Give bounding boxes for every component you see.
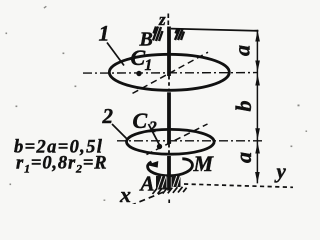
- shaft middle solid segment: [167, 92, 171, 144]
- shaft upper solid segment: [167, 27, 171, 77]
- bearing A left hatch block: [156, 176, 167, 190]
- shaft hidden dashed segment in disk 1: [168, 76, 170, 89]
- svg-text:z: z: [158, 10, 166, 29]
- svg-text:a: a: [230, 45, 255, 56]
- z-axis dashed line: [167, 14, 169, 28]
- scan specks: [6, 6, 308, 201]
- svg-text:C: C: [133, 108, 148, 133]
- z-axis small dash below bearing A: [168, 200, 170, 204]
- svg-text:M: M: [193, 151, 215, 176]
- svg-text:1: 1: [99, 20, 110, 45]
- shaft hidden dashed segment in disk 2: [168, 144, 170, 153]
- svg-text:x: x: [119, 182, 131, 204]
- disk 2 centre dash-dot line: [117, 140, 262, 142]
- leader line from label 2 to disk 2: [112, 124, 128, 140]
- disk 1 ellipse: [109, 54, 229, 90]
- leader line from C2 label to dot: [149, 124, 161, 146]
- dimension arrow down (bottom, at y axis): [255, 172, 260, 183]
- bearing B right hatch block: [175, 29, 184, 40]
- disk 1 inclined diameter dashed: [133, 52, 209, 93]
- dimension arrow down (end of b at disk 2 axis): [255, 128, 260, 139]
- svg-text:A: A: [139, 172, 155, 196]
- svg-text:a: a: [231, 152, 256, 163]
- dimension arrow up (start of lower a): [255, 142, 260, 153]
- moment M arc around shaft: [148, 159, 193, 176]
- svg-text:C: C: [131, 45, 146, 70]
- C2 mass centre dot: [157, 144, 162, 149]
- dimension arrow up (top, at line a start): [255, 30, 260, 41]
- svg-text:b: b: [231, 101, 256, 112]
- leader line from label 1 to disk 1: [107, 43, 124, 66]
- dimension line vertical: [256, 30, 258, 184]
- bearing B left hatch block: [153, 27, 163, 42]
- x-axis dashed line: [131, 192, 164, 206]
- moment M arrowhead: [146, 161, 158, 168]
- dimension arrow down (end of a at disk 1 axis): [255, 61, 260, 72]
- C1 mass centre dot: [136, 71, 141, 76]
- shaft lower solid segment: [167, 156, 171, 191]
- bearing A right hatch block: [172, 176, 181, 187]
- y-axis dashed line: [184, 184, 293, 187]
- disk 1 centre dash-dot line: [83, 72, 258, 75]
- disk 2 inclined diameter dashed: [147, 124, 208, 155]
- svg-text:2: 2: [148, 119, 157, 136]
- dimension arrow up (start of b): [255, 74, 260, 85]
- wire: top horizontal line from shaft to dimension line: [171, 29, 258, 31]
- ground hatch ticks under bearing A: [153, 187, 187, 194]
- svg-text:1: 1: [145, 57, 153, 74]
- disk 2 ellipse: [127, 129, 215, 154]
